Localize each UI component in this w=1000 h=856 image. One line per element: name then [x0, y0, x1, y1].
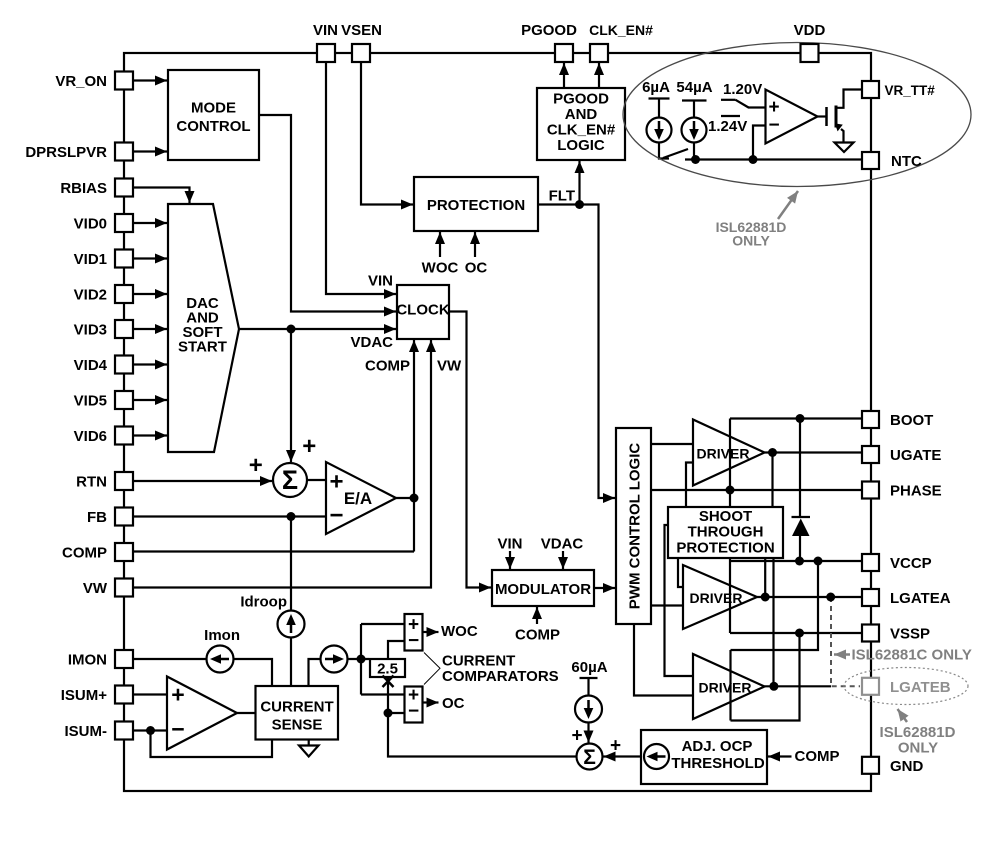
ellipse LGATEB region [844, 668, 968, 705]
svg-text:FB: FB [87, 509, 107, 526]
svg-text:RTN: RTN [76, 474, 107, 491]
block PROTECTION [414, 177, 538, 231]
svg-text:PWM CONTROL LOGIC: PWM CONTROL LOGIC [627, 443, 644, 610]
svg-text:COMP: COMP [365, 358, 410, 375]
svg-text:WOC: WOC [422, 260, 459, 277]
current source 60uA [575, 696, 602, 723]
chip border frame [124, 53, 871, 791]
svg-text:1.24V: 1.24V [708, 118, 747, 135]
pad RBIAS [115, 179, 133, 197]
svg-text:VID0: VID0 [74, 216, 107, 233]
wire E/A out down to COMP net [413, 498, 415, 552]
arrow ISL62881C to dashed wire [834, 653, 850, 656]
svg-text:1.20V: 1.20V [723, 81, 762, 98]
svg-text:RBIAS: RBIAS [60, 180, 107, 197]
svg-text:−: − [329, 502, 343, 529]
junction dot VSSP node [795, 629, 804, 638]
driver U2 DRIVER [683, 565, 757, 629]
svg-text:54µA: 54µA [676, 79, 712, 96]
wire VID4 to DAC [133, 363, 167, 365]
svg-text:PROTECTION: PROTECTION [676, 540, 774, 557]
junction dot UGATE node [768, 448, 777, 457]
junction dot FB node [287, 512, 296, 521]
pad UGATE [862, 446, 879, 463]
pad DPRSLPVR [115, 143, 133, 161]
svg-text:ISL62881C ONLY: ISL62881C ONLY [852, 647, 972, 664]
svg-text:VDAC: VDAC [541, 536, 584, 553]
svg-text:VDAC: VDAC [350, 334, 393, 351]
wire BOOT down through driver1 to STP [729, 419, 731, 508]
current source Imon [207, 646, 234, 673]
wire 54uA source to NTC node [693, 142, 695, 160]
svg-text:CLK_EN#: CLK_EN# [589, 22, 653, 38]
stub 1.24V contact [721, 115, 740, 117]
dashed wire LGATEA to LGATEB [831, 597, 860, 686]
svg-text:VW: VW [437, 358, 462, 375]
wire STP down to driver3 output node [772, 558, 774, 686]
svg-text:DRIVER: DRIVER [690, 590, 743, 606]
block SHOOT THROUGH PROTECTION [668, 507, 783, 558]
stub WOC output [423, 631, 439, 633]
junction dot ISUM- node [146, 726, 155, 735]
pad VW [115, 579, 133, 597]
stub OC output [423, 701, 439, 703]
svg-text:PGOOD: PGOOD [553, 91, 609, 108]
pad IMON [115, 650, 133, 668]
svg-text:COMP: COMP [515, 627, 560, 644]
stub COMP to MODULATOR [536, 607, 538, 624]
switch blade 6uA [663, 149, 688, 158]
svg-text:START: START [178, 339, 227, 356]
pad VID1 [115, 250, 133, 268]
wire VR_ON to MODE CONTROL [133, 79, 167, 81]
pad VID2 [115, 285, 133, 303]
junction dot E/A output [410, 494, 419, 503]
multiplier X symbol [383, 676, 394, 688]
svg-text:CURRENT: CURRENT [260, 699, 333, 716]
wire PWM to driver1 [651, 443, 693, 445]
svg-text:Idroop: Idroop [240, 594, 287, 611]
wire logic to PGOOD pad [563, 63, 565, 88]
wire VSSP net [730, 632, 862, 634]
wire VID2 to DAC [133, 293, 167, 295]
svg-text:+: + [610, 736, 621, 757]
wire VDAC node down to summer [290, 329, 292, 462]
svg-text:VID6: VID6 [74, 428, 107, 445]
pad GND [862, 757, 879, 774]
comparator box WOC [405, 614, 423, 651]
wire LGATEA up to STP [764, 558, 766, 597]
svg-text:GND: GND [890, 758, 924, 775]
svg-text:VID3: VID3 [74, 322, 107, 339]
svg-text:6µA: 6µA [642, 79, 670, 96]
svg-text:PGOOD: PGOOD [521, 22, 577, 39]
svg-text:THRESHOLD: THRESHOLD [671, 755, 765, 772]
pad VR_ON [115, 72, 133, 90]
pad LGATEA [862, 589, 879, 606]
block CURRENT SENSE [256, 686, 339, 740]
pad PGOOD [555, 44, 573, 62]
svg-text:DRIVER: DRIVER [697, 446, 750, 462]
pad VCCP [862, 554, 879, 571]
svg-text:COMPARATORS: COMPARATORS [442, 668, 559, 685]
junction dot comparator node [357, 655, 366, 664]
current source Idroop [278, 611, 305, 638]
wire E/A output node [396, 497, 414, 499]
arrow ISL62881D to ellipse [778, 191, 798, 219]
pad VID3 [115, 320, 133, 338]
svg-text:ONLY: ONLY [732, 233, 770, 249]
svg-text:DRIVER: DRIVER [699, 680, 752, 696]
svg-text:VSEN: VSEN [341, 22, 382, 39]
svg-text:CLK_EN#: CLK_EN# [547, 122, 616, 139]
svg-text:VID1: VID1 [74, 251, 107, 268]
svg-text:SENSE: SENSE [272, 717, 323, 734]
svg-text:E/A: E/A [344, 489, 372, 508]
wire MODULATOR out to PWM logic [594, 587, 615, 589]
junction dot PHASE node [726, 486, 735, 495]
svg-text:−: − [768, 115, 779, 136]
svg-text:THROUGH: THROUGH [688, 524, 764, 541]
svg-text:VDD: VDD [794, 22, 826, 39]
svg-text:ISL62881D: ISL62881D [880, 724, 956, 741]
wire VID1 to DAC [133, 257, 167, 259]
wire node to OC + [361, 693, 405, 695]
svg-text:LOGIC: LOGIC [557, 137, 605, 154]
junction dot LGATEA dashed [826, 593, 835, 602]
wire VW net [133, 340, 431, 588]
svg-text:VID4: VID4 [74, 357, 108, 374]
svg-text:+: + [302, 433, 316, 460]
svg-text:COMP: COMP [795, 748, 840, 765]
wire ADJ OCP to sigma2 [604, 755, 641, 757]
wire DPRSLPVR to MODE CONTROL [133, 150, 167, 152]
wire PWM bottom to driver3 [634, 624, 693, 696]
wire CLOCK out to MODULATOR [449, 312, 491, 588]
svg-text:Imon: Imon [204, 627, 240, 644]
pad CLK_EN# [590, 44, 608, 62]
op-amp current sense amp [167, 677, 237, 750]
svg-text:AND: AND [565, 106, 598, 123]
summer main sigma [273, 463, 307, 497]
block PWM CONTROL LOGIC [616, 428, 651, 624]
wire PWM to driver2 [651, 604, 683, 606]
wire E/A out up to CLOCK COMP [413, 340, 415, 498]
wire logic to CLK_EN# pad [598, 63, 600, 88]
pad BOOT [862, 411, 879, 428]
wire STP to driver2 input [678, 557, 683, 587]
svg-text:VCCP: VCCP [890, 555, 932, 572]
pad VID4 [115, 356, 133, 374]
wire FB node down to Idroop source [290, 517, 292, 687]
wire STP down through driver2 to VSSP [729, 557, 731, 633]
wire COMP net [133, 550, 414, 552]
arrow ISL62881D to LGATEB ellipse [898, 709, 908, 722]
svg-text:2.5: 2.5 [377, 661, 398, 678]
junction dot OC - node [384, 709, 393, 718]
driver U1 DRIVER [693, 420, 765, 486]
svg-text:Σ: Σ [583, 746, 596, 769]
wire IMON net [133, 659, 272, 686]
wire 6uA source lead [659, 142, 669, 159]
svg-text:PROTECTION: PROTECTION [427, 197, 525, 214]
wire FB net [133, 515, 326, 517]
pad COMP [115, 543, 133, 561]
svg-text:CONTROL: CONTROL [176, 118, 250, 135]
pad ISUM- [115, 722, 133, 740]
wire 60uA source to sigma2 [587, 722, 589, 743]
current source 54uA [682, 118, 707, 143]
pad VDD [801, 44, 819, 62]
op-amp E/A [326, 462, 396, 534]
svg-text:VR_TT#: VR_TT# [885, 83, 936, 98]
pad ISUM+ [115, 686, 133, 704]
pad VID0 [115, 214, 133, 232]
wire diode branch BOOT to VCCP [799, 419, 801, 562]
junction dot BOOT diode [796, 414, 805, 423]
wire VDAC from DAC to CLOCK [239, 328, 396, 330]
wire VSEN pad down to PROTECTION [361, 62, 413, 205]
svg-text:LGATEA: LGATEA [890, 590, 951, 607]
svg-text:MODE: MODE [191, 100, 236, 117]
svg-text:VR_ON: VR_ON [55, 73, 107, 90]
wire WOC stub to PROTECTION [439, 232, 441, 257]
wire 2.5 output down to sigma2 [388, 677, 576, 757]
pad RTN [115, 472, 133, 490]
svg-text:VIN: VIN [497, 536, 522, 553]
wire RTN to summer [133, 480, 272, 482]
ground CURRENT SENSE [308, 740, 310, 746]
svg-text:−: − [171, 716, 184, 742]
wire FLT up to PGOOD logic [578, 161, 580, 205]
svg-text:+: + [249, 452, 263, 479]
gain box 2.5 [370, 659, 405, 677]
svg-text:−: − [408, 701, 419, 722]
wire LGATEA net [757, 596, 862, 598]
svg-text:IMON: IMON [68, 652, 107, 669]
stub COMP to ADJ OCP [768, 755, 792, 757]
transistor VR_TT# MOSFET [825, 107, 828, 126]
junction dot LGATEA node [761, 593, 770, 602]
wire STP to driver3 input [665, 525, 694, 676]
wire UGATE down to STP [771, 453, 773, 508]
diode bootstrap [792, 516, 811, 518]
pad VID5 [115, 391, 133, 409]
junction dot NTC b [749, 155, 758, 164]
block MODULATOR [492, 570, 594, 606]
pad NTC [862, 152, 879, 169]
pad VID6 [115, 427, 133, 445]
wire ISUM- feedback loop [151, 731, 273, 758]
wire VCCP feed to driver3 rail [731, 561, 819, 650]
svg-text:−: − [408, 630, 419, 651]
block MODE CONTROL [168, 70, 259, 160]
pad VIN [317, 44, 335, 62]
wire NTC node to comparator - [753, 126, 766, 160]
svg-text:ADJ. OCP: ADJ. OCP [682, 738, 753, 755]
wire 54uA source bar [682, 101, 707, 119]
wire CURRENT SENSE to monitor source [309, 659, 370, 686]
comparator box OC [405, 687, 423, 723]
stub 1.20V contact [721, 99, 736, 101]
svg-text:ISUM+: ISUM+ [61, 687, 108, 704]
wire ISUM+ to amp [133, 693, 167, 695]
svg-text:PHASE: PHASE [890, 483, 942, 500]
wire VID6 to DAC [133, 434, 167, 436]
pad FB [115, 508, 133, 526]
svg-text:VID5: VID5 [74, 393, 107, 410]
wire summer to E/A + [307, 479, 326, 481]
wire VIN pad down to CLOCK [326, 62, 396, 294]
wire driver3 bottom rail to VSSP [731, 633, 800, 721]
svg-text:CURRENT: CURRENT [442, 653, 515, 670]
svg-text:+: + [171, 682, 184, 708]
current source 6uA [647, 118, 672, 143]
block DAC AND SOFT START [168, 204, 239, 452]
block CLOCK [397, 285, 449, 339]
wire MODE CONTROL out to CLOCK [259, 115, 396, 312]
pad VSEN [352, 44, 370, 62]
stub VDAC to MODULATOR [562, 551, 564, 569]
wire VCCP rail down through driver3 [729, 650, 731, 721]
stub VIN to MODULATOR [509, 551, 511, 569]
ellipse ISL62881D region [623, 43, 971, 187]
svg-text:+: + [571, 726, 582, 747]
pad VSSP [862, 625, 879, 642]
svg-text:VIN: VIN [313, 22, 338, 39]
switch blade 1.20V [736, 100, 749, 108]
wire VID3 to DAC [133, 328, 167, 330]
wire PHASE net [651, 489, 862, 491]
svg-text:DPRSLPVR: DPRSLPVR [25, 144, 107, 161]
block ADJ OCP THRESHOLD [641, 730, 767, 784]
svg-text:FLT: FLT [549, 188, 575, 205]
svg-text:VID2: VID2 [74, 287, 107, 304]
junction dot VCCP a [795, 557, 804, 566]
wire RBIAS to DAC [133, 188, 190, 204]
wire VCCP net [730, 560, 862, 562]
svg-text:OC: OC [465, 260, 488, 277]
svg-text:+: + [329, 469, 343, 496]
wire FLT net [538, 205, 615, 499]
svg-text:SHOOT: SHOOT [699, 508, 752, 525]
svg-text:BOOT: BOOT [890, 412, 933, 429]
wire NTC net [685, 158, 862, 160]
driver U3 DRIVER [693, 654, 765, 719]
svg-text:Σ: Σ [282, 465, 298, 495]
ground MOSFET source [835, 143, 854, 153]
svg-text:CLOCK: CLOCK [396, 302, 449, 319]
svg-text:60µA: 60µA [571, 659, 607, 676]
current source to comparators [321, 646, 348, 673]
wire comparator node vertical [360, 624, 362, 695]
junction dot VDAC node [287, 325, 296, 334]
brace current comparators [424, 653, 440, 685]
block PGOOD AND CLK_EN# LOGIC [537, 88, 625, 160]
wire amp out to CURRENT SENSE [237, 712, 256, 714]
junction dot LGATEB node [769, 682, 778, 691]
svg-text:NTC: NTC [891, 153, 922, 170]
wire 60uA source bar [580, 678, 598, 696]
svg-text:ISUM-: ISUM- [65, 723, 108, 740]
wire STP to driver1 input [686, 463, 693, 508]
wire comparator out to MOSFET gate [818, 115, 827, 117]
svg-text:VW: VW [83, 580, 108, 597]
wire ISUM- to amp [133, 729, 167, 731]
wire node to WOC + [361, 623, 405, 625]
pad PHASE [862, 482, 879, 499]
wire WOC - to 2.5 box [388, 641, 405, 659]
summer sigma2 OCP [577, 744, 603, 770]
svg-text:LGATEB: LGATEB [890, 679, 951, 696]
svg-text:OC: OC [442, 695, 465, 712]
svg-text:VIN: VIN [368, 273, 393, 290]
wire LGATEB solid segment [765, 685, 832, 687]
wire BOOT net [730, 417, 862, 419]
junction dot FLT node [575, 200, 584, 209]
junction dot VCCP b [814, 557, 823, 566]
junction dot NTC a [691, 155, 700, 164]
wire VID5 to DAC [133, 399, 167, 401]
wire 6uA source bar [649, 99, 670, 119]
svg-text:ONLY: ONLY [898, 740, 938, 757]
svg-text:WOC: WOC [441, 623, 478, 640]
svg-text:COMP: COMP [62, 545, 107, 562]
wire VID0 to DAC [133, 222, 167, 224]
wire comparator + input [748, 106, 766, 108]
wire OC stub to PROTECTION [474, 232, 476, 257]
wire UGATE net [765, 451, 863, 453]
wire OC - input [388, 712, 405, 714]
svg-text:MODULATOR: MODULATOR [495, 581, 591, 598]
comparator VR_TT# [766, 90, 818, 144]
pad LGATEB [862, 678, 879, 695]
svg-text:UGATE: UGATE [890, 447, 941, 464]
pad VR_TT# [862, 81, 879, 98]
svg-text:VSSP: VSSP [890, 626, 930, 643]
